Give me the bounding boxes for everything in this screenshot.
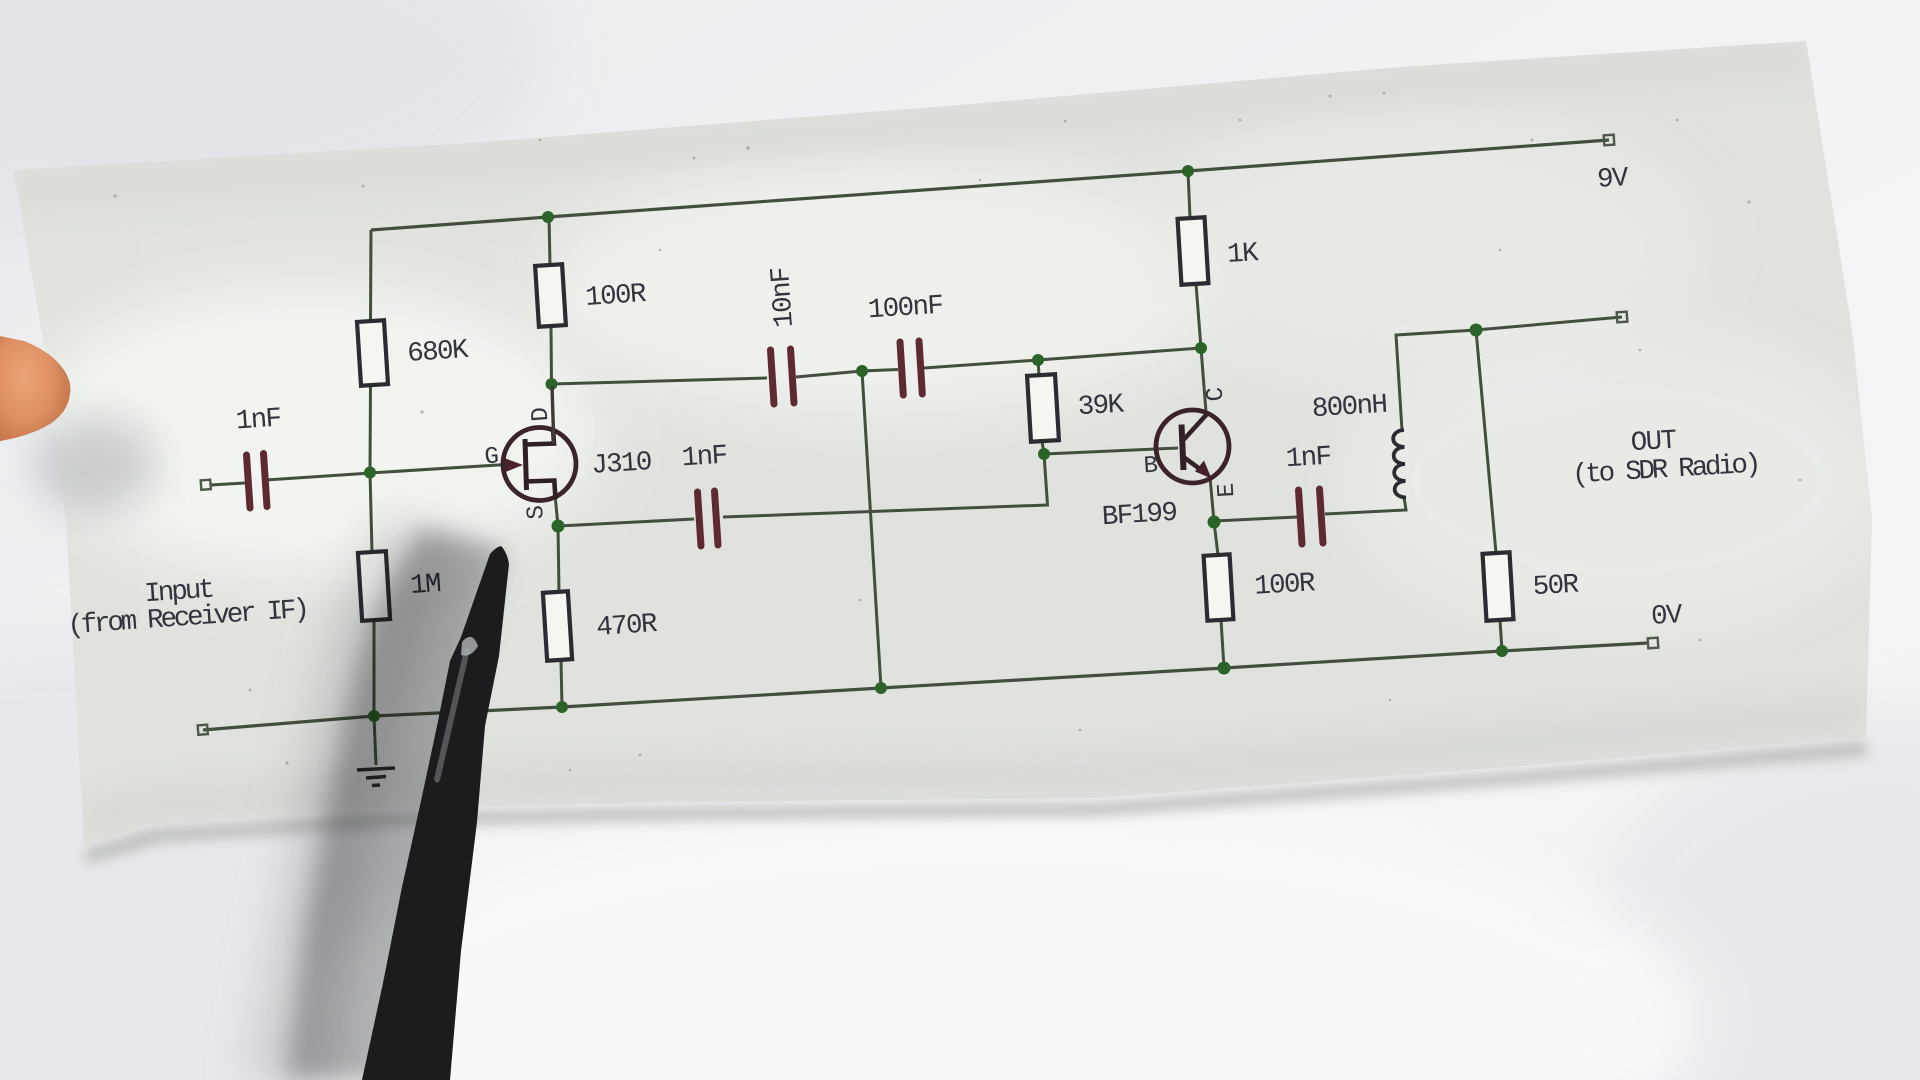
wire collector junction to BF199 collector pin: [1201, 348, 1206, 412]
capacitor 1nF input: [247, 455, 251, 508]
wire 100R right bottom lead: [1221, 620, 1224, 668]
resistor 1K: [1178, 217, 1209, 284]
svg-text:B: B: [1143, 453, 1159, 481]
svg-text:39K: 39K: [1077, 390, 1126, 424]
node ground at 100R: [1218, 662, 1231, 675]
resistor 100R right: [1204, 554, 1234, 620]
wire 9V top rail: [371, 140, 1609, 230]
svg-text:BF199: BF199: [1101, 498, 1177, 533]
svg-text:680K: 680K: [406, 335, 470, 370]
wire cap to gate junction: [266, 473, 371, 480]
wire mid junction to 100nF: [862, 370, 898, 372]
translucent schematic sheet: [12, 41, 1872, 846]
node drain: [546, 378, 558, 390]
wire BF199 emitter pin to emitter junction: [1210, 477, 1214, 522]
wire 470R bottom lead: [561, 660, 562, 707]
wire 10nF to mid junction: [796, 371, 862, 377]
resistor 1M: [358, 551, 390, 621]
wire input stub: [210, 483, 245, 485]
wire 100R right top lead: [1214, 522, 1218, 555]
svg-text:9V: 9V: [1596, 163, 1630, 196]
svg-text:C: C: [1203, 387, 1231, 403]
sheet drop shadow: [84, 741, 1868, 864]
node source: [552, 520, 565, 533]
svg-text:100R: 100R: [584, 279, 647, 314]
svg-text:0V: 0V: [1650, 600, 1684, 633]
terminal OUT: [1617, 312, 1628, 323]
inductor 800nH: [1393, 430, 1406, 498]
svg-text:470R: 470R: [595, 609, 658, 644]
transistor J310: [503, 386, 576, 501]
svg-text:1nF: 1nF: [681, 441, 728, 475]
wire OUT rail: [1476, 317, 1622, 330]
wire 100nF to 39K junction to collector junction: [924, 348, 1201, 368]
wire 680K bottom lead: [369, 385, 373, 472]
svg-text:1nF: 1nF: [1285, 442, 1332, 476]
wire 1M bottom lead: [373, 620, 376, 716]
svg-text:100R: 100R: [1253, 568, 1315, 603]
wire 39K bottom lead: [1042, 441, 1044, 454]
node ground at 470R: [556, 701, 568, 713]
node ground at 1M: [368, 710, 380, 722]
wire OUT junction down to 50R: [1476, 330, 1496, 553]
capacitor 1nF output: [1299, 490, 1303, 544]
wire inductor top to OUT junction: [1396, 330, 1476, 430]
wire 39K top lead: [1038, 360, 1039, 375]
terminal 9V: [1604, 135, 1615, 146]
resistor 100R left: [535, 264, 566, 327]
wire ground stub: [374, 716, 376, 765]
node gate junction: [364, 467, 376, 479]
node OUT: [1470, 324, 1483, 337]
node base: [1038, 448, 1050, 460]
wire base node to BF199 base: [1044, 448, 1178, 454]
svg-text:J310: J310: [590, 447, 652, 482]
node ground at 50R: [1496, 645, 1508, 657]
svg-text:E: E: [1214, 483, 1242, 499]
svg-text:800nH: 800nH: [1311, 390, 1387, 425]
svg-text:G: G: [484, 444, 499, 472]
wire 0V bottom rail: [203, 643, 1648, 730]
pencil shadow: [285, 528, 505, 1080]
node 9V at 100R: [542, 211, 554, 223]
ground: [357, 768, 395, 786]
node ground mid: [875, 682, 887, 694]
resistor 680K: [357, 320, 388, 386]
wire 1K bottom to collector junction: [1196, 284, 1201, 348]
terminal 0V left: [198, 725, 208, 735]
svg-text:1nF: 1nF: [235, 403, 282, 437]
wire emitter junction to output cap: [1215, 517, 1297, 521]
capacitor 10nF: [771, 350, 775, 404]
wire 100R top lead: [549, 217, 550, 265]
wire 50R bottom lead: [1500, 620, 1502, 651]
finger: [0, 336, 70, 441]
node 9V at 1K: [1182, 165, 1194, 177]
wire drain node to 10nF: [552, 378, 768, 384]
resistor 39K: [1027, 374, 1059, 442]
wire 9V junction to 1K top: [1188, 171, 1190, 218]
resistor 470R: [543, 591, 572, 660]
node collector: [1195, 342, 1207, 354]
wire 100R bottom lead: [550, 326, 554, 384]
wire source junction to 1nF coupling cap: [559, 519, 694, 526]
finger shadow: [35, 417, 155, 513]
wire JFET source pin to source junction: [555, 495, 558, 526]
wire 470R top lead: [558, 526, 559, 592]
node mid coupling: [856, 365, 868, 377]
svg-text:100nF: 100nF: [867, 291, 943, 327]
wire 680K top lead: [369, 230, 373, 321]
capacitor 100nF: [900, 342, 903, 395]
pencil: [362, 546, 509, 1080]
svg-text:10nF: 10nF: [766, 267, 801, 329]
terminal input: [201, 480, 211, 490]
wire base node down and left to 1nF coupling cap: [723, 454, 1048, 517]
node 39K top: [1032, 354, 1044, 366]
wire 1M top lead: [370, 472, 372, 552]
terminal 0V right: [1648, 638, 1659, 649]
transistor BF199: [1156, 410, 1229, 483]
wire output cap to inductor bottom: [1325, 497, 1406, 514]
svg-text:50R: 50R: [1532, 570, 1580, 604]
paper speckles: [113, 82, 1801, 772]
wire mid junction down to ground rail: [862, 371, 881, 688]
node emitter: [1208, 516, 1221, 529]
resistor 50R: [1483, 552, 1514, 620]
wire gate junction to JFET gate: [370, 465, 506, 474]
svg-text:1K: 1K: [1226, 238, 1260, 271]
capacitor 1nF source coupling: [698, 492, 702, 546]
